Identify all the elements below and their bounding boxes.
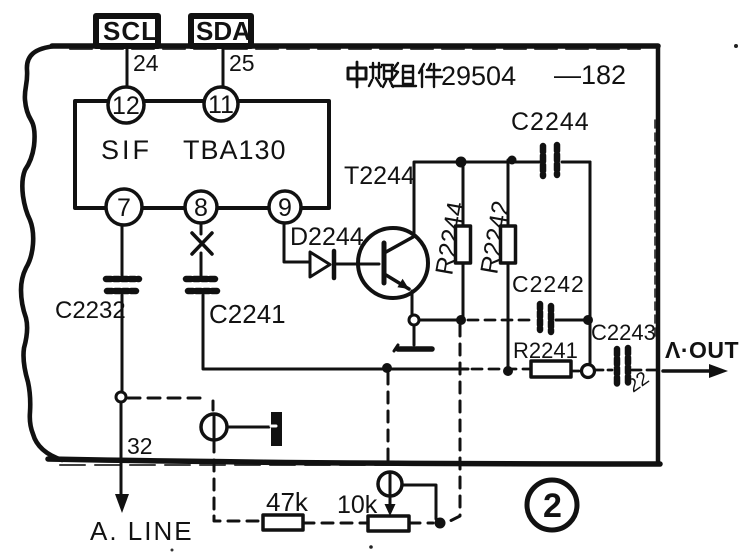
module boundary top edge — [52, 46, 658, 49]
svg-text:A. LINE: A. LINE — [90, 516, 194, 546]
module boundary torn left edge — [21, 46, 62, 460]
dashed corner to 47k — [214, 516, 262, 521]
svg-text:C2242: C2242 — [512, 271, 585, 297]
svg-text:T2244: T2244 — [344, 162, 415, 190]
resistor 47k — [263, 515, 303, 530]
node ring 32 branch — [116, 392, 126, 402]
wire C2243 through border — [632, 369, 658, 372]
IC U1 SIF TBA130 box — [75, 101, 329, 208]
pin 11 — [204, 87, 238, 121]
junction output rail pot branch — [382, 363, 392, 373]
dashed wire 47k to 10k — [303, 522, 367, 525]
dashed corner down — [212, 401, 215, 412]
dashed wiper wire from output rail — [387, 373, 390, 468]
wire pin 7 down — [121, 225, 124, 276]
key contact bar — [271, 412, 282, 446]
resistor R2242 — [501, 160, 516, 368]
speck — [171, 549, 174, 552]
wire wiper circle to bottom node — [402, 485, 440, 523]
junction on rail at R2244 — [456, 157, 467, 168]
dashed wire 10k to node — [409, 522, 433, 525]
svg-text:11: 11 — [208, 91, 234, 119]
junction on rail at R2242 — [508, 156, 517, 165]
capacitor C2232 — [106, 279, 139, 291]
svg-text:TBA130: TBA130 — [183, 135, 287, 165]
dashed wire node to connector — [128, 397, 206, 400]
svg-text:25: 25 — [229, 50, 255, 76]
junction bottom node — [435, 518, 446, 529]
wiper terminal circle — [378, 472, 402, 496]
svg-text:SCL: SCL — [103, 16, 158, 46]
dashed wire emitter rail down to bottom node — [448, 325, 460, 522]
capacitor C2244 — [543, 145, 557, 176]
svg-text:C2232: C2232 — [55, 297, 126, 324]
diode D2244 — [310, 251, 379, 278]
svg-text:C2241: C2241 — [209, 299, 286, 329]
svg-text:8: 8 — [194, 194, 208, 222]
title glyph 件 — [419, 64, 442, 87]
speck — [369, 545, 373, 549]
svg-text:29504: 29504 — [441, 61, 516, 91]
svg-text:C2244: C2244 — [511, 108, 590, 136]
svg-text:24: 24 — [133, 50, 159, 76]
wire connector to key — [227, 426, 269, 429]
wire C2241 down corner to output rail — [203, 295, 468, 369]
svg-text:Λ·OUT: Λ·OUT — [665, 337, 739, 363]
svg-text:32: 32 — [127, 433, 153, 459]
junction at right drop — [583, 315, 593, 325]
junction R2242 bottom — [503, 366, 513, 376]
wire A.OUT arrow — [663, 364, 728, 378]
pin 7 — [106, 189, 142, 225]
svg-text:D2244: D2244 — [290, 223, 364, 251]
wire node A horizontal (collector rail) — [414, 161, 540, 164]
junction emitter rail at R2244 — [456, 315, 466, 325]
node emitter ring — [409, 315, 419, 325]
svg-text:2: 2 — [543, 487, 562, 525]
svg-text:47k: 47k — [266, 487, 309, 517]
wire right vertical drop from node A — [589, 162, 592, 364]
resistor R2244 — [456, 162, 471, 320]
wire R2241 to node — [571, 370, 581, 373]
svg-text:—182: —182 — [554, 60, 626, 90]
svg-text:9: 9 — [278, 194, 292, 222]
wire pin 9 down and right — [284, 224, 309, 262]
wire emitter rail dashed — [468, 319, 536, 322]
wire node to C2243 — [595, 369, 612, 372]
ground — [394, 325, 432, 351]
resistor R2241 — [531, 361, 571, 377]
potentiometer 10k body — [368, 516, 409, 531]
svg-text:7: 7 — [117, 194, 131, 222]
wire output rail dashed to R2241 — [472, 368, 531, 371]
sheet number circled 2 — [527, 480, 577, 530]
wire C2244 to corner — [562, 161, 590, 164]
transistor Q T2244 — [358, 163, 428, 316]
wire C2232 down to node — [121, 295, 124, 392]
dashed wire connector down through border — [213, 441, 216, 516]
wire pin 8 down — [200, 224, 203, 234]
SDA terminal box — [191, 16, 251, 46]
capacitor C2241 — [186, 279, 218, 291]
svg-text:12: 12 — [112, 92, 140, 120]
wire X to C2241 — [200, 253, 203, 276]
pin 8 — [185, 191, 217, 223]
node terminal ring — [582, 365, 595, 378]
X mark on pin 8 wire — [192, 233, 212, 254]
title glyph 中 — [348, 62, 366, 87]
speck — [734, 44, 738, 48]
wire SCL to pin 12 — [126, 48, 129, 88]
pin 12 — [108, 87, 144, 123]
capacitor C2243 — [617, 348, 628, 385]
wire C2242 to junction — [556, 319, 588, 322]
capacitor C2242 — [540, 304, 551, 332]
SCL terminal box — [96, 16, 158, 46]
wire A.LINE with arrow — [115, 402, 129, 513]
svg-text:SDA: SDA — [196, 16, 251, 46]
connector terminal circle — [201, 414, 227, 440]
wiper arrow — [385, 497, 396, 516]
title glyph 组 — [392, 63, 416, 86]
wire emitter rail solid — [414, 319, 464, 322]
title glyph 频 — [369, 63, 393, 87]
module boundary bottom edge — [48, 459, 660, 465]
svg-text:C2243: C2243 — [591, 320, 656, 345]
pin 9 — [269, 191, 301, 223]
module boundary right edge — [655, 46, 658, 463]
svg-text:SIF: SIF — [101, 135, 152, 165]
wire SDA to pin 11 — [222, 48, 225, 87]
